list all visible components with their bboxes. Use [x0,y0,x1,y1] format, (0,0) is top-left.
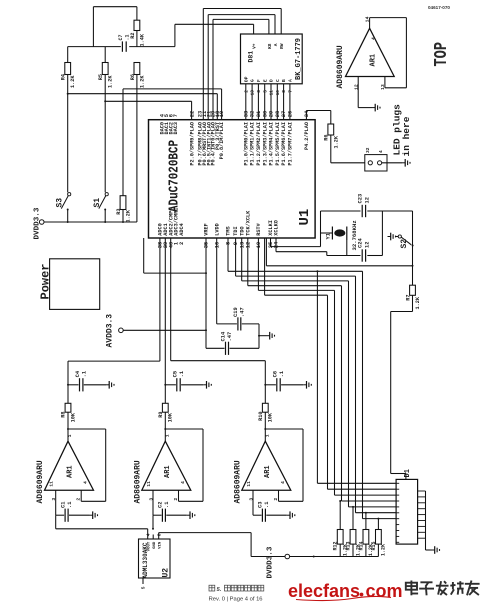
svg-text:com: com [366,581,403,601]
wire bus op3 [264,361,266,385]
svg-text:1: 1 [265,434,271,437]
svg-text:elecfans: elecfans [288,581,360,601]
svg-text:1.4K: 1.4K [139,33,145,46]
svg-text:BK_G7-1779: BK_G7-1779 [295,38,303,80]
svg-text:GND: GND [153,541,157,549]
svg-text:2: 2 [243,90,249,93]
svg-text:4: 4 [145,533,151,536]
svg-text:10K: 10K [70,412,76,422]
wire bus1 [227,238,229,271]
svg-text:D1: D1 [404,469,412,477]
wire D81 pin E to U1 [264,84,266,120]
wire S1 to U1 [105,100,191,102]
svg-text:19: 19 [256,242,262,248]
svg-text:U2: U2 [162,568,171,578]
wire D81 pin F to U1 [257,84,259,120]
ground [372,107,375,109]
resistor R3 [122,102,124,196]
svg-text:C4: C4 [75,370,81,377]
svg-text:3: 3 [249,498,255,501]
ground [303,384,306,386]
node AVDD3.3 [119,328,124,333]
svg-text:LVDD: LVDD [214,223,220,235]
svg-text:22: 22 [190,111,196,117]
wire xtal loop left [320,211,322,247]
ground [203,384,206,386]
svg-text:Rev. 0 | Page 4 of 16: Rev. 0 | Page 4 of 16 [209,596,263,602]
wire mid rail y=46.6 [68,46,121,48]
switch S2 [388,236,391,238]
svg-text:1.2K: 1.2K [139,75,145,88]
svg-text:F: F [256,79,262,82]
wire op1 to U2 [55,515,57,529]
svg-text:1.2K: 1.2K [126,209,132,222]
wire bus7 [316,271,318,483]
svg-text:4: 4 [378,150,384,153]
svg-text:RST#: RST# [256,223,262,235]
svg-text:4: 4 [180,481,186,484]
svg-text:12: 12 [364,242,370,248]
resistor R8 [67,385,69,404]
resistor R2 [136,7,138,21]
svg-text:C3: C3 [258,502,264,508]
ground [432,549,435,551]
svg-text:7: 7 [288,90,294,93]
ground [187,514,190,516]
svg-text:P1.6/SPM6/PLAI: P1.6/SPM6/PLAI [281,122,287,166]
svg-text:V+: V+ [252,43,258,49]
svg-text:C23: C23 [357,194,363,204]
svg-text:RW: RW [279,43,285,49]
caption line1 [209,585,215,591]
svg-text:3: 3 [256,90,262,93]
wire [104,75,106,193]
wire bracket2 [274,15,276,34]
svg-text:R3: R3 [116,209,122,215]
svg-text:VIN: VIN [158,541,162,549]
svg-text:4: 4 [280,481,286,484]
wire XCLKI [270,238,272,247]
svg-text:.1: .1 [82,371,88,377]
resistor R9 [164,385,166,404]
svg-text:8: 8 [281,90,287,93]
svg-text:10K: 10K [168,412,174,422]
svg-text:9: 9 [233,242,239,245]
svg-text:C7: C7 [118,34,124,40]
svg-text:.47: .47 [239,307,245,317]
wire DACREF [143,238,145,273]
power box [50,259,100,310]
svg-text:19: 19 [219,111,225,117]
wire D81 pin D to U1 [270,84,272,120]
svg-text:7: 7 [173,114,179,117]
wire S3 to U1 [68,93,218,95]
wire feedback [165,428,203,430]
svg-text:.1: .1 [67,502,73,508]
svg-text:5: 5 [262,90,268,93]
svg-text:11: 11 [146,481,152,487]
svg-text:C14: C14 [221,331,227,341]
wire AR1 feedback [369,18,371,29]
svg-text:26: 26 [288,111,294,117]
svg-text:13: 13 [250,90,256,96]
svg-text:R6: R6 [130,74,136,80]
svg-text:P2.0/SPM9/PLAO: P2.0/SPM9/PLAO [190,122,196,166]
wire D81 pin G to U1 [251,84,253,120]
wire to LED plug [331,162,368,164]
op-amp U1 ADuC7020 body [149,120,316,238]
wire feedback [68,428,106,430]
resistor R12 [339,501,341,530]
svg-text:VREF: VREF [204,223,210,235]
svg-text:XCLKO: XCLKO [274,220,280,236]
wire U1 pin34 [305,111,307,120]
wire op2 join [152,515,154,529]
svg-text:3: 3 [51,498,57,501]
svg-text:.1: .1 [164,502,170,508]
svg-text:27: 27 [281,111,287,117]
svg-text:C6: C6 [273,371,279,377]
svg-text:AR1: AR1 [264,465,272,478]
svg-text:29: 29 [269,111,275,117]
switch S3 [68,193,71,196]
svg-text:TCK/XCLK: TCK/XCLK [245,210,251,236]
resistor R15 [377,519,379,530]
svg-text:1: 1 [67,434,73,437]
resistor R7 [410,285,416,295]
svg-text:TMS: TMS [226,226,232,235]
resistor R10 [264,385,266,404]
svg-text:AVDD3.3: AVDD3.3 [106,314,115,348]
svg-text:.1: .1 [179,371,185,377]
svg-text:24: 24 [274,241,280,248]
svg-text:B: B [281,79,287,82]
capacitor C6 [265,384,276,386]
wire bus3 [241,238,243,281]
capacitor C24 [361,249,366,261]
svg-text:P1.3/SPM3/PLAI: P1.3/SPM3/PLAI [262,122,268,166]
svg-text:33: 33 [243,111,249,117]
capacitor C1 [55,490,57,515]
op-amp AR1 (top) [346,28,395,76]
svg-text:1.2K: 1.2K [381,544,387,556]
wire D81 pin DP to U1 [245,84,247,120]
wire bus6 [264,238,266,295]
node DVDD3.3 [39,220,44,225]
switch S1 [105,193,108,196]
logo elecfans.com [296,596,391,600]
op-amp AR1 unit 1 [45,441,94,490]
svg-text:in here: in here [401,116,412,156]
wire long net [266,265,412,267]
wire XCLKO [275,238,277,252]
svg-text:1.2K: 1.2K [333,135,339,148]
logo chinese [410,581,412,596]
svg-text:2: 2 [179,242,185,245]
svg-text:S1: S1 [93,198,102,208]
svg-text:DVDD3.3: DVDD3.3 [34,207,42,239]
op-amp AR1 unit 2 [142,441,191,490]
svg-text:E: E [262,79,268,82]
svg-text:R5: R5 [98,74,104,80]
svg-text:10: 10 [275,90,281,96]
svg-text:1.2K: 1.2K [70,75,76,88]
connector D1 [396,479,418,544]
svg-text:11: 11 [269,90,275,96]
svg-text:R13: R13 [346,542,352,551]
ground [402,162,405,164]
svg-text:R8: R8 [61,412,67,418]
svg-text:AD8609ARU: AD8609ARU [233,460,242,503]
resistor R4 [67,47,69,63]
svg-text:R12: R12 [333,542,339,551]
svg-text:P4.2/PLAO: P4.2/PLAO [304,122,310,150]
capacitor C2 [152,490,154,515]
svg-text:10K: 10K [268,412,274,422]
wire D1 gnd pins [418,490,426,492]
ground [90,514,93,516]
svg-text:34: 34 [304,110,310,117]
wire bus5 [257,238,259,290]
svg-text:1.2K: 1.2K [108,75,114,88]
svg-text:12: 12 [364,197,370,203]
svg-text:DVDD3.3: DVDD3.3 [267,546,275,578]
capacitor C3 [252,490,254,515]
op-amp AR1 unit 3 [242,441,291,490]
svg-text:.1: .1 [279,371,285,377]
svg-text:12: 12 [245,242,251,248]
resistor R6 [328,124,334,135]
wire feedback [265,428,303,430]
capacitor C5 [165,384,176,386]
svg-text:S2: S2 [400,239,409,249]
svg-text:4: 4 [83,481,89,484]
svg-text:5.: 5. [217,587,222,593]
wire bracket3 [268,19,270,34]
node DVDD3.3 (bottom) [285,554,290,559]
svg-text:C5: C5 [173,371,179,377]
svg-text:VOUT: VOUT [147,541,151,551]
svg-text:.47: .47 [227,332,233,342]
svg-text:P0.8/IM/PLAI: P0.8/IM/PLAI [219,122,225,159]
svg-text:R14: R14 [358,542,364,551]
svg-text:35: 35 [204,242,210,248]
svg-text:.1: .1 [264,502,270,508]
capacitor C4 [68,384,79,386]
svg-text:11: 11 [246,481,252,487]
svg-text:04617-070: 04617-070 [428,5,450,10]
wire D81 pin C to U1 [276,84,278,120]
svg-text:P1.1/SPM1/PLAI: P1.1/SPM1/PLAI [250,122,256,166]
svg-text:TDO: TDO [239,226,245,235]
svg-text:R6: R6 [324,135,330,141]
svg-text:1.2K: 1.2K [415,296,421,309]
wire bus op2 [164,238,166,385]
svg-text:C19: C19 [233,307,239,317]
svg-text:R10: R10 [258,412,264,421]
svg-text:C1: C1 [60,502,66,508]
svg-text:8: 8 [226,242,232,245]
connector LED plug [365,155,387,171]
svg-text:AD8609ARU: AD8609ARU [36,460,45,503]
wire D81 pin A to U1 [289,84,291,120]
wire xtal loop top [321,210,361,212]
wire R7 to D1 [412,295,414,311]
svg-text:U1: U1 [297,209,313,226]
svg-text:AR1: AR1 [164,465,172,478]
wire [67,75,69,193]
svg-text:R7: R7 [405,295,411,301]
crystal Y1 [321,232,333,234]
svg-text:Power: Power [39,263,53,299]
svg-text:D81: D81 [248,51,255,63]
svg-text:32.768KHz: 32.768KHz [351,220,358,250]
svg-text:S3: S3 [56,198,65,208]
svg-text:1: 1 [165,434,171,437]
capacitor C19 [216,238,218,324]
resistor R13 [352,507,354,530]
svg-text:A: A [273,43,279,46]
wire bus4 [247,238,249,286]
regulator U2 [139,539,171,578]
svg-text:TDI: TDI [233,226,239,235]
svg-text:P1.4/SPM4/PLAI: P1.4/SPM4/PLAI [269,122,275,166]
svg-text:R15: R15 [371,542,377,551]
svg-text:AR1: AR1 [67,465,75,478]
svg-text:32: 32 [250,111,256,117]
svg-text:D: D [269,79,275,82]
wire D81 V+ pin [253,24,255,34]
wire [136,75,138,223]
svg-text:DP: DP [243,76,249,82]
wire VREF [205,238,207,348]
svg-text:8: 8 [156,533,162,536]
svg-text:31: 31 [256,111,262,117]
svg-text:11: 11 [49,481,55,487]
svg-text:5: 5 [141,586,147,589]
svg-text:P1.7/SPM7/PLAI: P1.7/SPM7/PLAI [288,122,294,166]
wire resistor rail [314,556,379,558]
capacitor C23 [361,205,366,217]
svg-text:C2: C2 [158,502,164,508]
wire bracket1 [280,9,282,35]
resistor R5 [104,47,106,63]
svg-text:DAC3: DAC3 [173,122,179,134]
capacitor C7 [122,41,127,51]
wire xtal loop right [381,211,383,256]
wire S2 drop [412,211,414,285]
svg-text:P1.2/SPM2/PLAI: P1.2/SPM2/PLAI [256,122,262,166]
svg-text:AR1: AR1 [370,54,378,67]
svg-text:30: 30 [262,111,268,117]
wire R3 to U1 [123,88,222,90]
svg-text:A: A [288,79,294,82]
ground [106,384,109,386]
svg-text:C: C [275,79,281,82]
LED display D81 [241,34,303,84]
svg-text:32: 32 [365,147,371,153]
wire bus2 [235,238,237,276]
svg-text:3: 3 [149,498,155,501]
svg-text:K8: K8 [267,43,273,49]
svg-text:AD8609ARU: AD8609ARU [336,45,345,88]
svg-text:P1.5/SPM5/PLAI: P1.5/SPM5/PLAI [275,122,281,166]
wire AR1 +in [357,77,359,108]
svg-text:13: 13 [239,242,245,248]
svg-text:R4: R4 [61,74,67,80]
resistor R6b [134,63,140,75]
wire U2 VIN to DVDD [158,533,160,539]
svg-text:R2: R2 [130,33,136,39]
svg-text:ADC4: ADC4 [179,223,185,235]
ground [258,335,260,337]
svg-text:P1.0/SPM0/PLAI: P1.0/SPM0/PLAI [243,122,249,166]
wire D81 pin B to U1 [283,84,285,120]
svg-text:4: 4 [371,37,377,40]
svg-text:28: 28 [275,111,281,117]
svg-text:R9: R9 [158,412,164,418]
svg-text:TOP: TOP [432,42,452,67]
ground [287,514,290,516]
wire top rail [93,6,136,8]
svg-text:AD8609ARU: AD8609ARU [133,460,142,503]
wire plug to gnd [382,162,402,164]
wire xtal loop bottom [327,255,361,257]
svg-text:Y1: Y1 [325,232,332,239]
svg-text:ADuC7020BCP: ADuC7020BCP [167,140,183,212]
svg-text:G: G [250,79,256,82]
capacitor C14 [206,347,225,349]
resistor R14 [365,513,367,530]
svg-text:C24: C24 [357,238,363,248]
wire bus op1 [67,361,69,385]
svg-text:16: 16 [214,242,220,248]
